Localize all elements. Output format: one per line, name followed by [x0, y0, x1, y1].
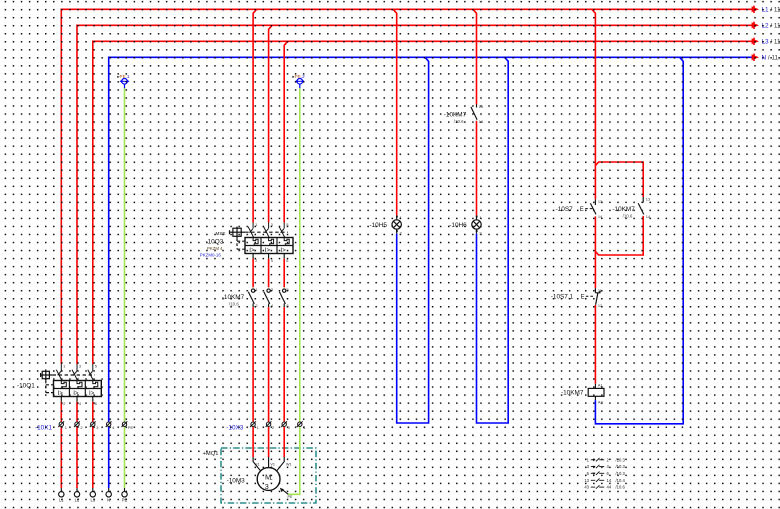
contactor KM7 main contacts (-10KM7) [222, 287, 289, 308]
contact KM7 aux 13-14 (-10KM7) [444, 104, 484, 124]
terminal strip X1 (-10X1) [35, 421, 133, 431]
wire tap L2 to Q3 pole 2 [269, 25, 273, 222]
motor M3 (-10M3) [227, 462, 292, 491]
wire tap L1 to control branch [592, 9, 596, 199]
circuit breaker Q1 (-10Q1) [17, 364, 101, 406]
terminal strip X3 (-10X3) [226, 421, 306, 431]
wire Q3 to KM7 contacts [253, 259, 284, 288]
lamp H6 (-10H6) [449, 215, 481, 236]
wire tap L1 to lamp H5 [393, 9, 397, 215]
wire S7 to S7.1 [594, 216, 596, 288]
wire tap L1 to Q3 pole 1 [253, 9, 257, 222]
wire X3 to motor W1 [277, 427, 284, 471]
enclosure box +MQ1 [203, 448, 316, 503]
pushbutton S7.1 (-10S7.1) NC contact [551, 288, 602, 308]
pushbutton S7 (-10S7) NO contact [556, 199, 603, 219]
node bottom connection L3 [90, 488, 96, 503]
node bottom connection N [106, 488, 111, 503]
wire lamp H5 to N [397, 57, 429, 423]
contactor coil KM7 (-10KM7) [561, 383, 604, 405]
wire PE left vertical [124, 88, 126, 421]
wire S7.1 to coil [594, 305, 596, 384]
wire Q1 to X1 terminals [61, 402, 93, 422]
node L3 arrow [752, 38, 780, 46]
wire X3 to motor V1 [268, 427, 270, 468]
wire X3 to motor U1 [253, 427, 260, 471]
motor breaker Q3 (-10Q3) [200, 222, 293, 263]
lamp H5 (-10H5) [370, 215, 402, 236]
node PE source terminal 1 [117, 74, 130, 88]
node N arrow [752, 54, 780, 62]
wire contact to lamp H6 [476, 121, 478, 216]
node bottom connection L2 [74, 488, 80, 503]
wire L1 bus [61, 9, 752, 364]
wire L2 bus [77, 25, 752, 364]
wire N bus [109, 57, 753, 421]
wire coil to N [595, 57, 683, 424]
wire L3 bus [93, 41, 753, 364]
contact KM7 aux 43-44 (-10KM7) in branch [612, 197, 650, 219]
node bottom connection L1 [59, 488, 65, 503]
wire parallel branch loop [595, 162, 643, 255]
contact mirror table for KM7 [584, 457, 625, 489]
wire lamp H6 to N [477, 57, 509, 423]
wire PE to motor [280, 427, 300, 499]
wire PE right vertical (to motor) [299, 88, 301, 421]
wire KM7 to X3 terminals [253, 307, 284, 421]
wire tap L3 to Q3 pole 3 [284, 41, 288, 222]
node PE source terminal 2 [292, 74, 305, 88]
node L2 arrow [752, 22, 780, 30]
node bottom connection PE [122, 488, 128, 503]
wire X1 to bottom connection points [61, 427, 124, 488]
wire tap L1 to contact KM7 aux 13-14 [473, 9, 477, 104]
node L1 arrow [752, 6, 780, 14]
